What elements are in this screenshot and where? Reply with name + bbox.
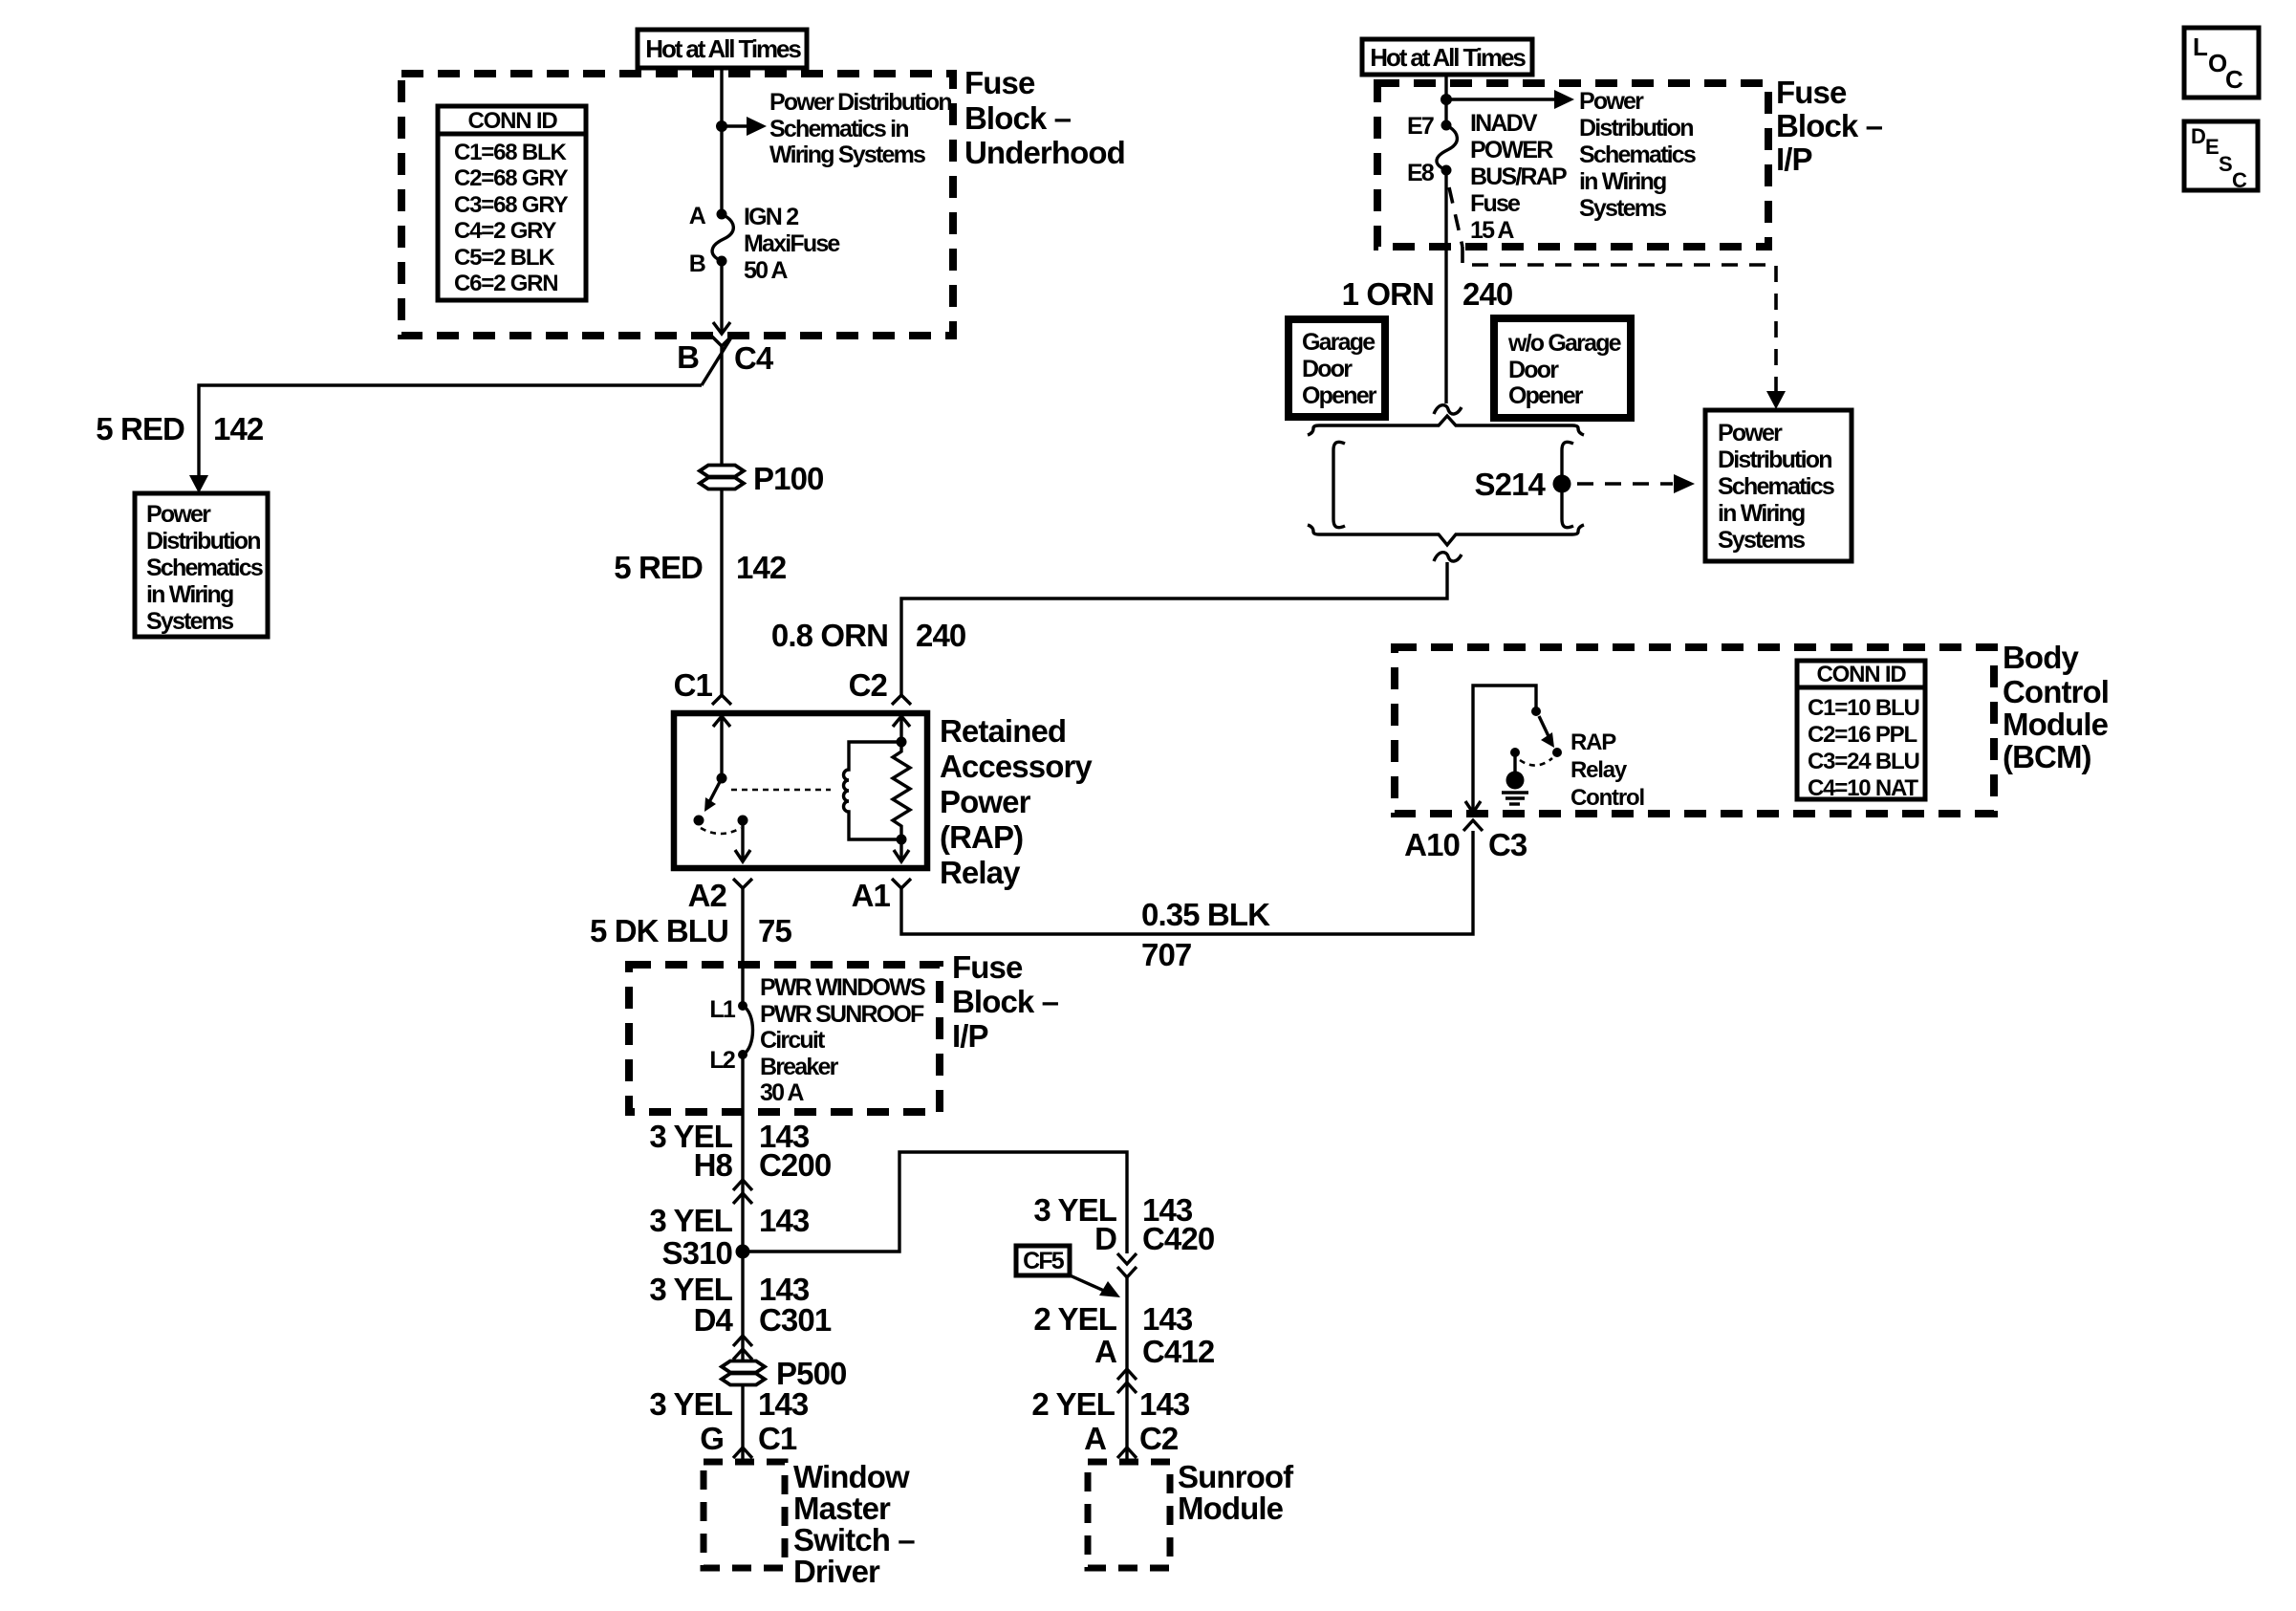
svg-text:D: D: [2191, 124, 2206, 148]
BCM switch grounded contact: [1510, 748, 1552, 773]
wire: breaker L2 down to P500: [741, 1051, 744, 1361]
svg-text:Garage: Garage: [1302, 329, 1375, 356]
svg-text:C: C: [2225, 65, 2243, 94]
svg-text:143: 143: [1139, 1386, 1190, 1422]
label: Fuse Block - Underhood: [964, 65, 1125, 170]
svg-text:15 A: 15 A: [1470, 217, 1514, 244]
svg-text:I/P: I/P: [952, 1018, 988, 1054]
wire break below splice group: [1434, 553, 1462, 561]
label: Fuse Block - I/P (breaker): [952, 949, 1059, 1054]
svg-text:PWR WINDOWS: PWR WINDOWS: [760, 974, 925, 1001]
callout CF5 box with arrow: [1016, 1246, 1120, 1297]
fuse block I/P dashed box (INADV fuse): [1377, 83, 1768, 247]
svg-text:A: A: [689, 203, 706, 229]
label: 0.35 BLK / 707: [1141, 897, 1270, 972]
svg-text:A2: A2: [688, 878, 727, 913]
svg-text:Opener: Opener: [1302, 382, 1377, 409]
svg-text:50 A: 50 A: [744, 257, 788, 284]
connector C412 (double chevron up): [1117, 1369, 1137, 1393]
svg-text:RAP: RAP: [1570, 729, 1616, 755]
svg-text:142: 142: [736, 550, 787, 585]
svg-text:3 YEL: 3 YEL: [649, 1386, 732, 1422]
svg-text:A: A: [1094, 1334, 1116, 1369]
label: 0.8 ORN | 240: [771, 618, 965, 653]
label: 3 YEL | 143 (above S310): [649, 1203, 810, 1238]
svg-text:2 YEL: 2 YEL: [1033, 1301, 1116, 1337]
label: 3 YEL | 143 (above C200): [649, 1119, 810, 1154]
svg-text:Relay: Relay: [1570, 757, 1628, 783]
wire: battery feed from Hot box into fuse: [720, 68, 723, 214]
svg-text:Systems: Systems: [1718, 527, 1805, 554]
wire: fuse B down to connector C4 with exit arrow: [713, 261, 730, 334]
label: Body Control Module (BCM): [2003, 640, 2109, 774]
box: Power Distribution Schematics in Wiring Systems (left): [135, 493, 268, 637]
svg-text:CONN ID: CONN ID: [468, 108, 558, 134]
wire: A1 0.35 BLK 707 to BCM A10: [901, 831, 1473, 934]
relay switch contacts: [694, 816, 748, 835]
svg-text:I/P: I/P: [1776, 142, 1812, 177]
svg-text:C4: C4: [734, 340, 774, 376]
svg-text:Systems: Systems: [146, 608, 233, 635]
svg-text:30 A: 30 A: [760, 1079, 804, 1106]
box: Power Distribution Schematics in Wiring Systems (right): [1705, 410, 1852, 561]
svg-text:C5=2 BLK: C5=2 BLK: [454, 245, 555, 271]
svg-text:A10: A10: [1404, 827, 1460, 862]
svg-text:5 DK BLU: 5 DK BLU: [590, 913, 728, 948]
svg-text:Schematics in: Schematics in: [769, 116, 908, 142]
label: H8 | C200: [694, 1147, 832, 1183]
svg-text:Door: Door: [1508, 357, 1559, 383]
wire: A2 down to circuit breaker L1: [741, 888, 744, 1004]
svg-text:C1: C1: [674, 667, 713, 703]
wire: relay output to A2 with arrow: [735, 820, 750, 861]
CONN ID table (BCM): [1797, 661, 1925, 801]
svg-text:A1: A1: [852, 878, 891, 913]
BCM internal wire to A10 with arrow: [1465, 686, 1536, 813]
svg-text:Breaker: Breaker: [760, 1054, 839, 1080]
wire: 0.8 ORN 240 from S214 group to relay C2: [901, 562, 1447, 696]
svg-text:Power: Power: [146, 501, 211, 528]
label: INADV POWER BUS/RAP Fuse 15 A: [1470, 110, 1567, 244]
legend box: DESC: [2184, 121, 2258, 192]
label: D4 | C301: [694, 1302, 832, 1338]
svg-text:Door: Door: [1302, 356, 1353, 382]
svg-text:CF5: CF5: [1023, 1248, 1065, 1274]
splice group left bracket: [1333, 442, 1345, 527]
svg-text:in Wiring: in Wiring: [1579, 168, 1666, 195]
svg-text:C2: C2: [849, 667, 888, 703]
svg-text:Distribution: Distribution: [146, 528, 260, 555]
svg-text:143: 143: [1142, 1301, 1193, 1337]
label: D | C420: [1094, 1221, 1214, 1256]
legend box: LOC: [2184, 28, 2259, 98]
svg-text:Retained: Retained: [940, 713, 1066, 749]
relay box: Retained Accessory Power (RAP) Relay: [674, 713, 927, 868]
relay C2 input arrow and A1 output arrow: [893, 715, 910, 861]
svg-text:P100: P100: [753, 461, 823, 496]
svg-text:L1: L1: [709, 996, 735, 1023]
connector C301 (double chevron): [733, 1336, 752, 1360]
svg-text:5 RED: 5 RED: [614, 550, 703, 585]
svg-text:C301: C301: [759, 1302, 832, 1338]
svg-text:in Wiring: in Wiring: [146, 581, 233, 608]
svg-text:0.8 ORN: 0.8 ORN: [771, 618, 888, 653]
svg-text:Schematics: Schematics: [146, 555, 263, 581]
dashed reference wire from fuse to Power Distribution box: [1449, 187, 1786, 409]
splice S214: [1553, 475, 1571, 493]
svg-text:C4=10 NAT: C4=10 NAT: [1808, 775, 1918, 801]
svg-text:Module: Module: [2003, 707, 2109, 742]
power source box: Hot at All Times (I/P): [1362, 39, 1532, 75]
svg-text:C2=68 GRY: C2=68 GRY: [454, 165, 569, 191]
svg-text:C6=2 GRN: C6=2 GRN: [454, 271, 557, 296]
svg-text:B: B: [689, 250, 705, 277]
svg-text:Distribution: Distribution: [1579, 115, 1693, 142]
svg-text:D4: D4: [694, 1302, 734, 1338]
label: 1 ORN | 240: [1342, 276, 1513, 312]
label: Power Distribution Schematics in Wiring Systems (I/P ref): [1579, 88, 1696, 222]
svg-text:C4=2 GRY: C4=2 GRY: [454, 218, 556, 244]
svg-text:1 ORN: 1 ORN: [1342, 276, 1434, 312]
svg-text:C3: C3: [1488, 827, 1527, 862]
label: 3 YEL | 143 (bottom): [649, 1386, 809, 1422]
svg-text:75: 75: [758, 913, 791, 948]
connector C420 (double chevron down): [1117, 1253, 1137, 1277]
svg-text:142: 142: [213, 411, 264, 446]
relay resistor: [893, 737, 910, 845]
splice group right bracket: [1562, 442, 1573, 527]
label: RAP Relay Control: [1570, 729, 1644, 811]
connector B/C4 (in-line, chevron and slash): [702, 337, 731, 385]
svg-text:L2: L2: [709, 1047, 734, 1074]
svg-text:Module: Module: [1178, 1491, 1284, 1526]
svg-text:S: S: [2219, 152, 2233, 176]
power source box: Hot at All Times (underhood): [638, 30, 807, 68]
Body Control Module dashed box: [1395, 647, 1994, 814]
node: junction to power distribution reference (I/P): [1440, 94, 1452, 105]
fuse block underhood dashed box: [401, 74, 953, 336]
wire: S310 branch to sunroof column: [743, 1152, 1127, 1253]
label: 2 YEL | 143 (C412): [1033, 1301, 1193, 1337]
svg-text:w/o Garage: w/o Garage: [1507, 330, 1622, 357]
svg-text:C3=24 BLU: C3=24 BLU: [1808, 749, 1919, 774]
node: junction to power distribution reference: [716, 120, 727, 132]
svg-text:Distribution: Distribution: [1718, 446, 1831, 473]
relay switch: C1 input arrow and arm: [704, 715, 730, 812]
box: Garage Door Opener: [1289, 319, 1385, 417]
svg-text:Block –: Block –: [964, 100, 1072, 136]
svg-text:Power Distribution: Power Distribution: [769, 89, 951, 116]
svg-text:CONN ID: CONN ID: [1817, 662, 1907, 687]
label: A | C2: [1084, 1421, 1179, 1456]
svg-text:(BCM): (BCM): [2003, 739, 2091, 774]
label: Retained Accessory Power (RAP) Relay: [940, 713, 1093, 890]
svg-text:Body: Body: [2003, 640, 2079, 675]
svg-text:5 RED: 5 RED: [96, 411, 184, 446]
Window Master Switch - Driver dashed box: [704, 1462, 785, 1568]
svg-text:143: 143: [759, 1203, 810, 1238]
label: IGN 2 MaxiFuse 50 A: [744, 204, 840, 284]
connector A10/C3 (chevron): [1463, 820, 1483, 831]
svg-text:H8: H8: [694, 1147, 733, 1183]
label: 3 YEL | 143 (below S310): [649, 1272, 810, 1307]
wire: C4 down to P100: [720, 346, 723, 466]
arrow: to power distribution schematics reference (I/P): [1446, 90, 1574, 109]
svg-text:Switch –: Switch –: [793, 1522, 915, 1557]
relay coil: [844, 742, 902, 839]
svg-text:Schematics: Schematics: [1718, 473, 1834, 500]
svg-text:Driver: Driver: [793, 1554, 880, 1589]
svg-text:Window: Window: [793, 1459, 910, 1494]
svg-text:Power: Power: [940, 784, 1031, 819]
label: 5 DK BLU | 75: [590, 913, 791, 948]
svg-text:S310: S310: [662, 1235, 732, 1271]
fuse: INADV POWER BUS/RAP Fuse 15 A: [1437, 120, 1457, 176]
label: Fuse Block - I/P (top right): [1776, 75, 1883, 177]
dashed arrow: S214 to Power Distribution box: [1577, 474, 1695, 493]
svg-text:Wiring Systems: Wiring Systems: [769, 142, 925, 168]
fuse block I/P dashed box (circuit breaker): [629, 965, 940, 1112]
label: Sunroof Module: [1178, 1459, 1294, 1526]
svg-text:MaxiFuse: MaxiFuse: [744, 230, 840, 257]
connector C2 at sunroof module (chevron): [1117, 1448, 1137, 1458]
svg-text:Fuse: Fuse: [1776, 75, 1847, 110]
wire: branch 5 RED 142 to left with arrow: [189, 385, 702, 493]
svg-text:143: 143: [758, 1386, 809, 1422]
wire: P100 down to relay C1: [720, 489, 723, 696]
label: PWR WINDOWS PWR SUNROOF Circuit Breaker 30 A: [760, 974, 925, 1106]
label: 3 YEL | 143 (sunroof branch): [1033, 1192, 1193, 1228]
svg-text:Accessory: Accessory: [940, 749, 1093, 784]
box: w/o Garage Door Opener: [1494, 318, 1631, 418]
svg-text:C420: C420: [1142, 1221, 1214, 1256]
svg-text:C1=68 BLK: C1=68 BLK: [454, 140, 567, 165]
svg-text:BUS/RAP: BUS/RAP: [1470, 163, 1567, 190]
ground symbol: [1502, 772, 1528, 805]
wire break above splice group: [1434, 405, 1462, 414]
circuit breaker: PWR WINDOWS PWR SUNROOF 30 A: [738, 1001, 753, 1059]
label: 2 YEL | 143 (C2): [1031, 1386, 1190, 1422]
svg-text:Fuse: Fuse: [952, 949, 1023, 985]
connector C2 (chevron): [892, 695, 911, 705]
connector P500 (pass-through grommet): [722, 1361, 765, 1385]
svg-text:Relay: Relay: [940, 855, 1021, 890]
label: Power Distribution Schematics in Wiring Systems (underhood ref): [769, 89, 951, 168]
svg-text:C1=10 BLU: C1=10 BLU: [1808, 695, 1919, 721]
connector A2 (chevron): [733, 879, 752, 888]
fuse: IGN 2 MaxiFuse 50 A: [712, 209, 733, 267]
label: 5 RED | 142 (branch): [96, 411, 264, 446]
svg-text:Fuse: Fuse: [964, 65, 1035, 100]
svg-text:C1: C1: [758, 1421, 797, 1456]
svg-text:Control: Control: [2003, 674, 2109, 709]
svg-text:E8: E8: [1407, 160, 1435, 186]
svg-text:Hot at All Times: Hot at All Times: [645, 34, 801, 63]
BCM switch: RAP Relay Control: [1531, 707, 1562, 757]
svg-text:S214: S214: [1475, 467, 1547, 502]
label: 5 RED | 142 (mid): [614, 550, 787, 585]
svg-text:0.35 BLK: 0.35 BLK: [1141, 897, 1270, 932]
svg-text:C200: C200: [759, 1147, 831, 1183]
connector C200 (double chevron): [733, 1180, 752, 1204]
svg-text:Block –: Block –: [952, 984, 1059, 1019]
Sunroof Module dashed box: [1088, 1462, 1170, 1568]
wire: battery feed into INADV fuse: [1444, 75, 1447, 125]
svg-text:Circuit: Circuit: [760, 1027, 826, 1054]
wire: C420 down to sunroof module: [1125, 1277, 1128, 1459]
svg-text:C412: C412: [1142, 1334, 1215, 1369]
splice S310: [736, 1245, 750, 1259]
svg-text:C: C: [2232, 168, 2247, 192]
svg-text:3 YEL: 3 YEL: [649, 1203, 732, 1238]
connector P100 (pass-through grommet): [700, 466, 744, 490]
svg-text:Sunroof: Sunroof: [1178, 1459, 1294, 1494]
svg-text:G: G: [700, 1421, 724, 1456]
svg-text:E: E: [2205, 135, 2220, 159]
svg-text:D: D: [1094, 1221, 1116, 1256]
svg-text:INADV: INADV: [1470, 110, 1538, 137]
svg-text:PWR SUNROOF: PWR SUNROOF: [760, 1001, 924, 1028]
connector C1 at window switch (chevron): [733, 1448, 752, 1458]
label: G | C1: [700, 1421, 797, 1456]
svg-text:A: A: [1084, 1421, 1106, 1456]
svg-text:IGN 2: IGN 2: [744, 204, 798, 230]
svg-text:Block –: Block –: [1776, 108, 1883, 143]
svg-text:POWER: POWER: [1470, 137, 1553, 163]
svg-text:E7: E7: [1407, 113, 1434, 140]
svg-text:240: 240: [916, 618, 965, 653]
label: Window Master Switch - Driver: [793, 1459, 915, 1589]
relay coil control dashed link: [731, 789, 831, 792]
label: A | C412: [1094, 1334, 1215, 1369]
svg-text:707: 707: [1141, 937, 1191, 972]
arrow: to power distribution schematics reference: [722, 117, 767, 136]
svg-text:C3=68 GRY: C3=68 GRY: [454, 192, 569, 218]
wire: P500 to window master switch: [741, 1384, 744, 1459]
svg-text:C2: C2: [1139, 1421, 1179, 1456]
splice group top brace: [1308, 416, 1584, 435]
svg-text:Master: Master: [793, 1491, 891, 1526]
svg-text:L: L: [2193, 33, 2208, 61]
splice group bottom brace: [1308, 525, 1584, 545]
svg-text:Systems: Systems: [1579, 195, 1666, 222]
svg-text:Power: Power: [1579, 88, 1644, 115]
svg-text:B: B: [677, 339, 699, 375]
svg-text:Opener: Opener: [1508, 382, 1584, 409]
connector C1 (chevron): [712, 695, 731, 705]
svg-text:Underhood: Underhood: [964, 135, 1125, 170]
svg-text:Control: Control: [1570, 785, 1644, 811]
svg-text:C2=16 PPL: C2=16 PPL: [1808, 722, 1917, 748]
CONN ID table (underhood): [438, 106, 586, 300]
svg-text:(RAP): (RAP): [940, 819, 1023, 855]
svg-text:Schematics: Schematics: [1579, 142, 1696, 168]
svg-text:Power: Power: [1718, 420, 1783, 446]
svg-text:in Wiring: in Wiring: [1718, 500, 1805, 527]
connector A1 (chevron): [892, 879, 911, 888]
svg-text:Hot at All Times: Hot at All Times: [1370, 43, 1526, 72]
svg-text:240: 240: [1462, 276, 1512, 312]
wire: E8 down to S214: [1444, 170, 1447, 403]
svg-text:Fuse: Fuse: [1470, 190, 1521, 217]
svg-text:2 YEL: 2 YEL: [1031, 1386, 1115, 1422]
